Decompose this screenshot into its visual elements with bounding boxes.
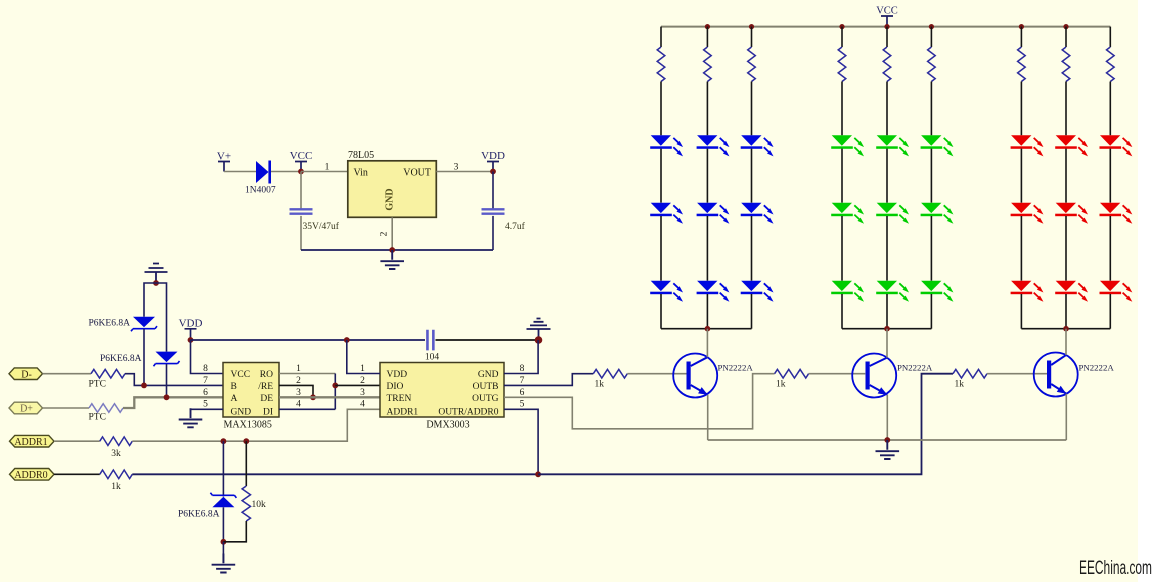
wire rail to resistor red3: [1109, 27, 1111, 47]
wire resistor to LED1 green1: [841, 82, 843, 136]
resistor R green2: [883, 47, 891, 82]
svg-text:ADDR1: ADDR1: [14, 437, 47, 448]
wire Q2 emitter to ground bus: [886, 395, 888, 440]
svg-text:PN2222A: PN2222A: [718, 363, 754, 373]
junction C3 ground node: [535, 336, 543, 344]
junction emitter bus ground: [884, 437, 890, 443]
wire LED1-LED2 blue1: [660, 149, 662, 203]
wire LED1-LED2 blue2: [706, 149, 708, 203]
wire U1 GND pin 2 down: [391, 217, 393, 250]
svg-text:VCC: VCC: [290, 150, 313, 162]
svg-text:OUTB: OUTB: [473, 382, 499, 392]
resistor R blue3: [748, 47, 756, 82]
wire LED3 to bottom rail green3: [930, 294, 932, 329]
junction bottom rail red: [1063, 326, 1069, 332]
wire rail to resistor green2: [886, 27, 888, 47]
wire rail to resistor blue2: [706, 27, 708, 47]
svg-text:DI: DI: [263, 408, 273, 418]
svg-text:35V/47uf: 35V/47uf: [303, 221, 340, 232]
svg-text:7: 7: [203, 376, 208, 386]
svg-text:10k: 10k: [252, 500, 267, 510]
svg-text:OUTR/ADDR0: OUTR/ADDR0: [438, 408, 498, 418]
regulator U1 78L05 body: [348, 161, 437, 218]
svg-text:PN2222A: PN2222A: [1079, 363, 1115, 373]
svg-text:4.7uf: 4.7uf: [505, 221, 526, 232]
junction A line at D3: [164, 394, 170, 400]
resistor R4 1k: [100, 470, 132, 479]
junction VDD rail node: [188, 337, 194, 343]
LED green2 row3: [877, 281, 897, 291]
svg-text:VCC: VCC: [231, 370, 251, 380]
VCC top rail: [661, 26, 1110, 28]
wire LED3 to bottom rail green1: [841, 294, 843, 329]
svg-text:PTC: PTC: [89, 413, 106, 423]
svg-text:TREN: TREN: [387, 394, 412, 404]
wire rail to resistor red2: [1065, 27, 1067, 47]
LED blue1 row2: [651, 203, 671, 213]
svg-text:2: 2: [296, 376, 301, 386]
resistor R6 1k: [593, 369, 627, 378]
svg-text:A: A: [231, 394, 238, 404]
wire LED2-LED3 blue2: [706, 216, 708, 281]
transistor Q3 PN2222A: [1034, 353, 1078, 397]
resistor R green3: [928, 47, 936, 82]
LED blue3 row3: [741, 281, 761, 291]
wire R6 to Q1 base: [627, 373, 686, 375]
junction VDD rail at DMX riser: [344, 337, 350, 343]
wire ADDR1 to R3: [54, 440, 100, 442]
junction bottom rail green: [884, 326, 890, 332]
svg-text:ADDR1: ADDR1: [387, 408, 419, 418]
svg-text:/RE: /RE: [258, 382, 273, 392]
wire R3 to U3 ADDR1 pin 4: [132, 409, 380, 441]
junction top rail col green1: [839, 24, 844, 29]
svg-text:DE: DE: [260, 394, 273, 404]
IC U3 DMX3003 body: [380, 363, 504, 418]
junction top rail col blue3: [749, 24, 754, 29]
junction TVS bottom node: [221, 539, 227, 545]
wire to bottom ground: [222, 542, 224, 563]
svg-text:EEChina.com: EEChina.com: [1079, 558, 1152, 579]
junction RO/DI/DIO node: [332, 383, 338, 389]
wire resistor to LED1 red2: [1065, 82, 1067, 136]
wire D- to PTC R1: [43, 373, 92, 375]
ground symbol emitter bus: [876, 440, 900, 459]
svg-text:GND: GND: [385, 188, 396, 210]
svg-text:1: 1: [360, 364, 365, 374]
wire resistor to LED1 green3: [930, 82, 932, 136]
ground symbol power section: [380, 250, 404, 269]
LED red3 row2: [1100, 203, 1120, 213]
ground symbol above C3 node (inverted): [527, 319, 551, 341]
wire LED3 to bottom rail blue1: [660, 294, 662, 329]
svg-text:3: 3: [360, 388, 365, 398]
wire Q3 emitter to ground bus: [1065, 394, 1067, 440]
wire LED2-LED3 green1: [841, 216, 843, 281]
transistor Q2 PN2222A: [852, 354, 896, 398]
wire LED3 to bottom rail green2: [886, 294, 888, 329]
wire U3 OUTR pin 5 down to ADDR0 line: [504, 409, 538, 474]
svg-text:DMX3003: DMX3003: [426, 420, 469, 431]
wire resistor to LED1 red1: [1020, 82, 1022, 136]
svg-text:4: 4: [296, 400, 301, 410]
LED red1 row3: [1011, 281, 1031, 291]
transistor Q1 PN2222A: [673, 354, 717, 398]
wire D2 cathode to B line: [143, 329, 145, 385]
wire D+ to PTC R2: [43, 407, 90, 409]
IC U2 MAX13085 body: [223, 363, 279, 418]
svg-text:3: 3: [454, 163, 459, 173]
svg-text:1k: 1k: [111, 482, 121, 492]
wire DIO riser vertical: [334, 374, 336, 410]
junction TVS top node: [153, 280, 159, 286]
capacitor C1 35V/47uf - top lead: [300, 172, 302, 210]
wire LED2-LED3 red1: [1020, 216, 1022, 281]
LED blue3 row1: [741, 135, 761, 145]
LED green3 row2: [921, 203, 941, 213]
svg-text:5: 5: [203, 400, 208, 410]
junction VCC node: [298, 169, 304, 175]
wire LED1-LED2 blue3: [751, 149, 753, 203]
wire red group to Q3 collector: [1065, 329, 1067, 355]
LED red1 row1: [1011, 135, 1031, 145]
wire DIO riser to U3 DIO pin 2: [335, 384, 380, 386]
ground symbol bottom TVS: [212, 554, 236, 573]
LED red3 row3: [1100, 281, 1120, 291]
resistor R red3: [1107, 47, 1115, 82]
resistor R green1: [838, 47, 846, 82]
LED blue1 row1: [651, 135, 671, 145]
wire LED2-LED3 blue3: [751, 216, 753, 281]
resistor R5 10k: [242, 486, 250, 521]
svg-text:1k: 1k: [595, 380, 605, 390]
svg-text:PN2222A: PN2222A: [897, 363, 933, 373]
svg-text:GND: GND: [478, 370, 499, 380]
power bar VCC top: [881, 16, 893, 27]
resistor R red2: [1062, 47, 1070, 82]
svg-text:P6KE6.8A: P6KE6.8A: [89, 319, 131, 329]
capacitor C2 4.7uf plates: [482, 209, 505, 213]
ground symbol at U2: [179, 408, 203, 427]
wire U2 RO pin 1 to DIO riser: [279, 373, 335, 375]
bottom rail blue group: [661, 328, 752, 330]
wire resistor to LED1 blue1: [660, 82, 662, 136]
svg-text:78L05: 78L05: [348, 150, 374, 161]
TVS diode D4 P6KE6.8A: [212, 497, 234, 508]
resistor R7 1k: [775, 369, 809, 378]
port ADDR0: [10, 469, 55, 481]
resistor R blue2: [704, 47, 712, 82]
svg-text:1k: 1k: [776, 380, 786, 390]
wire U2 /RE pin 2 to DE tie: [279, 385, 313, 397]
svg-text:P6KE6.8A: P6KE6.8A: [178, 510, 220, 520]
wire resistor to LED1 red3: [1109, 82, 1111, 136]
wire resistor to LED1 green2: [886, 82, 888, 136]
wire VDD rail down to U3 VDD pin 1: [347, 340, 380, 374]
capacitor C1 bottom lead: [300, 216, 302, 250]
capacitor C2 bottom lead: [492, 216, 494, 250]
wire LED1-LED2 green1: [841, 149, 843, 203]
LED blue2 row3: [697, 281, 717, 291]
junction top rail col blue2: [705, 24, 710, 29]
power bar VDD: [487, 162, 499, 172]
wire TVS top node branches: [144, 283, 167, 352]
wire LED3 to bottom rail blue2: [706, 294, 708, 329]
svg-text:1: 1: [325, 163, 330, 173]
wire LED3 to bottom rail red3: [1109, 294, 1111, 329]
wire U3 OUTG pin 6 to R7: [504, 374, 775, 429]
wire LED2-LED3 green2: [886, 216, 888, 281]
LED green1 row3: [832, 281, 852, 291]
LED blue3 row2: [741, 203, 761, 213]
wire R7 to Q2 base: [809, 373, 866, 375]
svg-text:5: 5: [520, 400, 525, 410]
wire U2 DE pin 3 to U3 TREN pin 3: [279, 396, 380, 398]
wire LED2-LED3 red2: [1065, 216, 1067, 281]
svg-text:OUTG: OUTG: [472, 394, 499, 404]
svg-text:DIO: DIO: [387, 382, 404, 392]
LED blue2 row1: [697, 135, 717, 145]
svg-text:7: 7: [520, 376, 525, 386]
wire R5 top lead: [245, 441, 247, 486]
capacitor C2 4.7uf - top lead: [492, 172, 494, 210]
wire U3 GND pin 8 up to ground node: [504, 340, 538, 374]
diode D1 1N4007: [256, 161, 269, 183]
wire VDD rail to cap 104: [191, 339, 426, 341]
wire ADDR0 to R4: [54, 473, 100, 475]
junction top rail col green3: [929, 24, 934, 29]
LED green2 row2: [877, 203, 897, 213]
wire rail to resistor blue3: [751, 27, 753, 47]
wire OUTR line to R8 riser: [538, 374, 953, 475]
svg-text:1k: 1k: [955, 380, 965, 390]
junction ADDR1 line at R5: [243, 438, 249, 444]
svg-text:B: B: [231, 382, 237, 392]
svg-text:VDD: VDD: [179, 318, 203, 330]
LED blue1 row3: [651, 281, 671, 291]
svg-text:8: 8: [520, 364, 525, 374]
wire rail to resistor blue1: [660, 27, 662, 47]
wire LED2-LED3 red3: [1109, 216, 1111, 281]
wire Q1 emitter to ground bus: [707, 395, 709, 440]
wire LED3 to bottom rail red2: [1065, 294, 1067, 329]
svg-text:GND: GND: [231, 408, 252, 418]
junction top rail col red1: [1019, 24, 1024, 29]
junction power ground node: [389, 247, 395, 253]
power bar V+: [218, 162, 230, 172]
LED red2 row3: [1056, 281, 1076, 291]
resistor R8 1k: [953, 369, 987, 378]
port ADDR1: [10, 435, 55, 447]
wire R4 to OUTR node: [132, 473, 538, 475]
svg-text:3k: 3k: [111, 449, 121, 459]
TVS diode D2 P6KE6.8A: [133, 317, 155, 328]
power bar VCC: [295, 162, 307, 172]
svg-text:D-: D-: [21, 369, 32, 380]
LED green3 row1: [921, 135, 941, 145]
svg-text:VDD: VDD: [387, 370, 408, 380]
wire green group to Q2 collector: [886, 329, 888, 358]
svg-text:6: 6: [203, 388, 208, 398]
junction B line at D2: [141, 383, 147, 389]
bottom rail red group: [1021, 328, 1110, 330]
svg-text:VOUT: VOUT: [403, 168, 431, 179]
wire rail to resistor green1: [841, 27, 843, 47]
svg-text:1: 1: [296, 364, 301, 374]
wire C3 right plate to ground node: [436, 339, 539, 341]
LED green1 row2: [832, 203, 852, 213]
LED red2 row1: [1056, 135, 1076, 145]
LED blue2 row2: [697, 203, 717, 213]
svg-text:2: 2: [380, 231, 390, 236]
wire R5 bottom lead: [223, 521, 246, 542]
TVS diode D3 P6KE6.8A: [156, 352, 178, 363]
LED green2 row1: [877, 135, 897, 145]
wire D4 to bottom node: [222, 507, 224, 542]
wire D1 to VCC node: [271, 171, 301, 173]
power bar VDD at U2: [185, 329, 197, 340]
wire LED1-LED2 red1: [1020, 149, 1022, 203]
svg-text:VDD: VDD: [481, 150, 505, 162]
svg-text:MAX13085: MAX13085: [224, 420, 272, 431]
wire VCC to 78L05 Vin pin 1: [301, 171, 348, 173]
wire PTC to U2 B pin 7: [125, 374, 223, 386]
svg-text:4: 4: [360, 400, 365, 410]
wire D3 cathode to A line: [166, 364, 168, 397]
wire resistor to LED1 blue3: [751, 82, 753, 136]
port D-: [9, 368, 43, 380]
svg-text:104: 104: [425, 353, 440, 363]
junction top rail col green2: [884, 24, 889, 29]
wire U1 VOUT pin 3 to VDD node: [436, 171, 493, 173]
svg-text:RO: RO: [260, 370, 273, 380]
LED red3 row1: [1100, 135, 1120, 145]
capacitor C1 35V/47uf plates: [290, 209, 313, 213]
wire LED3 to bottom rail red1: [1020, 294, 1022, 329]
svg-text:P6KE6.8A: P6KE6.8A: [100, 354, 142, 364]
wire V+ to D1: [224, 171, 256, 173]
svg-text:PTC: PTC: [89, 380, 106, 390]
LED green3 row3: [921, 281, 941, 291]
resistor R3 3k: [100, 437, 132, 446]
wire rail to resistor red1: [1020, 27, 1022, 47]
wire D4 anode lead: [222, 441, 224, 496]
wire LED1-LED2 green2: [886, 149, 888, 203]
port D+: [9, 402, 43, 414]
junction OUTR/ADDR0 node: [535, 471, 541, 477]
svg-text:1N4007: 1N4007: [245, 186, 276, 196]
LED red2 row2: [1056, 203, 1076, 213]
resistor R red1: [1018, 47, 1026, 82]
wire PTC to U2 A pin 6: [123, 397, 223, 408]
wire VDD down to U2 VCC pin 8: [191, 340, 224, 374]
junction VDD node: [490, 169, 496, 175]
wire LED1-LED2 green3: [930, 149, 932, 203]
LED green1 row1: [832, 135, 852, 145]
junction ADDR1 line at D4: [221, 438, 227, 444]
wire LED2-LED3 green3: [930, 216, 932, 281]
LED red1 row2: [1011, 203, 1031, 213]
svg-text:D+: D+: [20, 404, 33, 415]
capacitor C3 104 plates: [427, 330, 433, 351]
svg-text:VCC: VCC: [876, 6, 898, 17]
wire blue group to Q1 collector: [706, 329, 708, 357]
svg-text:Vin: Vin: [354, 168, 368, 179]
ground wire of power section: [301, 249, 493, 251]
wire U3 OUTB pin 7 to R6: [504, 374, 593, 386]
resistor R blue1: [657, 47, 665, 82]
junction RE/DE tie: [310, 394, 316, 400]
svg-text:2: 2: [360, 376, 365, 386]
wire LED1-LED2 red3: [1109, 149, 1111, 203]
junction top rail col red2: [1063, 24, 1068, 29]
wire LED1-LED2 red2: [1065, 149, 1067, 203]
wire LED2-LED3 blue1: [660, 216, 662, 281]
wire R8 to Q3 base: [987, 373, 1047, 375]
junction bottom rail blue: [705, 326, 711, 332]
ground symbol above TVS diodes (inverted): [145, 264, 168, 284]
wire U2 DI pin 4 to DIO riser: [279, 408, 335, 410]
svg-text:8: 8: [203, 364, 208, 374]
svg-text:ADDR0: ADDR0: [14, 470, 47, 481]
wire rail to resistor green3: [930, 27, 932, 47]
resistor R2 PTC: [89, 404, 123, 413]
wire resistor to LED1 blue2: [706, 82, 708, 136]
wire LED3 to bottom rail blue3: [751, 294, 753, 329]
resistor R1 PTC: [91, 369, 125, 378]
wire U2 GND pin 5 to ground: [191, 408, 224, 411]
bottom rail green group: [842, 328, 931, 330]
emitter ground bus: [708, 439, 1067, 441]
